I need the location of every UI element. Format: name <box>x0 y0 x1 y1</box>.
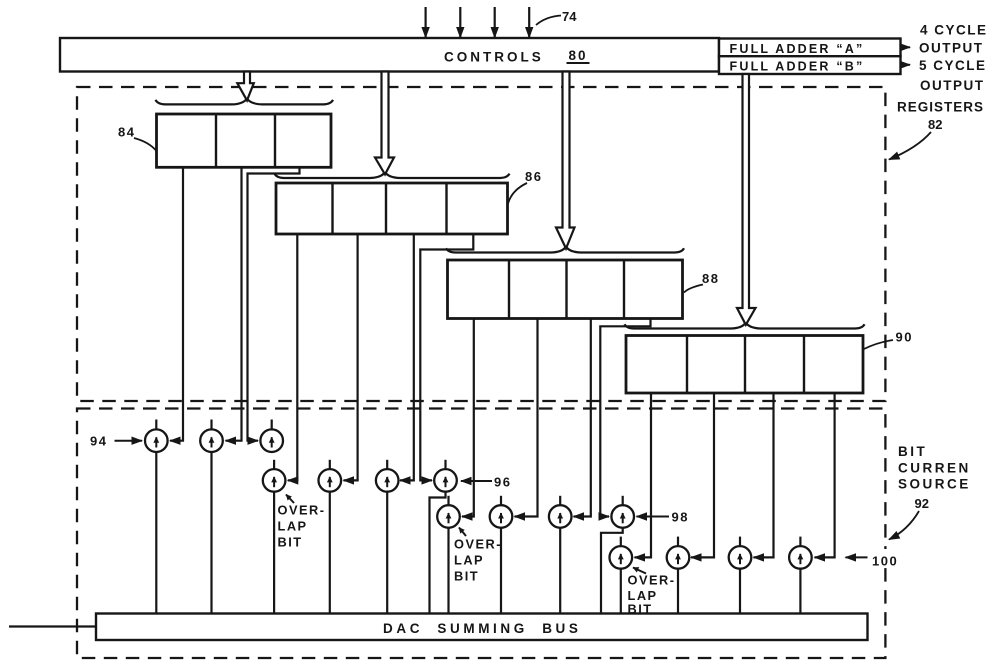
svg-text:BIT: BIT <box>898 444 927 459</box>
svg-text:88: 88 <box>702 271 719 286</box>
svg-text:74: 74 <box>562 9 577 24</box>
svg-text:82: 82 <box>928 117 942 132</box>
svg-text:92: 92 <box>915 496 929 511</box>
svg-text:REGISTERS: REGISTERS <box>897 100 984 115</box>
svg-text:BIT: BIT <box>628 602 653 617</box>
svg-text:94: 94 <box>90 434 107 449</box>
svg-text:4 CYCLE: 4 CYCLE <box>920 23 988 38</box>
svg-text:96: 96 <box>494 475 511 490</box>
svg-text:CURREN: CURREN <box>898 460 971 475</box>
svg-text:FULL ADDER “A”: FULL ADDER “A” <box>730 42 865 56</box>
svg-text:FULL ADDER “B”: FULL ADDER “B” <box>730 60 865 74</box>
svg-text:LAP: LAP <box>278 519 308 534</box>
svg-text:LAP: LAP <box>454 553 484 568</box>
svg-text:98: 98 <box>672 510 689 525</box>
svg-text:80: 80 <box>569 48 588 63</box>
svg-text:OVER-: OVER- <box>278 503 326 518</box>
svg-text:BIT: BIT <box>278 535 303 550</box>
svg-text:DAC SUMMING BUS: DAC SUMMING BUS <box>383 621 582 636</box>
svg-text:OUTPUT: OUTPUT <box>920 78 985 93</box>
svg-text:84: 84 <box>118 125 135 140</box>
svg-text:OUTPUT: OUTPUT <box>919 41 984 56</box>
svg-text:86: 86 <box>525 169 542 184</box>
svg-text:5 CYCLE: 5 CYCLE <box>919 58 987 73</box>
svg-text:OVER-: OVER- <box>628 572 676 587</box>
svg-text:BIT: BIT <box>454 569 479 584</box>
svg-text:CONTROLS: CONTROLS <box>444 50 544 65</box>
svg-text:100: 100 <box>872 554 898 569</box>
svg-text:OVER-: OVER- <box>454 537 502 552</box>
svg-text:SOURCE: SOURCE <box>898 477 971 492</box>
svg-text:90: 90 <box>896 330 913 345</box>
